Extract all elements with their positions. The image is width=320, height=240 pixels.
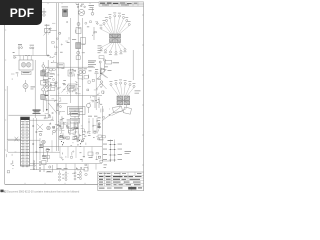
svg-text:1.862 Document 5982-8212-30 co: 1.862 Document 5982-8212-30 contains ins… [1, 190, 80, 193]
